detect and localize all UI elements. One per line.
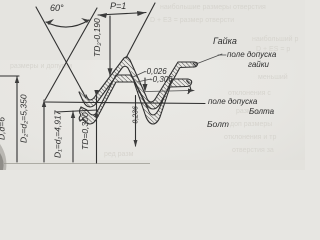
pitch line D2 xyxy=(45,102,205,104)
svg-text:Болта: Болта xyxy=(249,107,275,116)
svg-text:-0,236: -0,236 xyxy=(133,106,140,126)
minor line D1 xyxy=(56,110,97,112)
svg-text:наибольший р: наибольший р xyxy=(252,35,299,43)
svg-text:наибольшие размеры отверстия: наибольшие размеры отверстия xyxy=(160,3,266,11)
dimension D,d=6 xyxy=(16,76,18,162)
dimension TD=0,300 xyxy=(96,92,98,163)
label -0,026 with leader xyxy=(133,72,145,78)
svg-text:P=1: P=1 xyxy=(110,1,126,11)
dimension D2=d2=5,350 xyxy=(43,100,45,162)
svg-text:D₁=d₁=4,917: D₁=d₁=4,917 xyxy=(53,110,63,158)
flank line L2 (right flank of basic profile) xyxy=(45,8,97,100)
svg-text:-0,306: -0,306 xyxy=(150,75,173,84)
bolt zone outline D (bottom) xyxy=(80,82,187,124)
bottom-left dark scan corner xyxy=(0,144,6,170)
svg-text:D + ЕЗ = размер отверсти: D + ЕЗ = размер отверсти xyxy=(150,17,234,24)
nut zone outline B (bottom) xyxy=(79,66,193,109)
dimension TD2=0,190 xyxy=(109,16,111,76)
60 deg arc with arrows xyxy=(46,20,89,27)
svg-text:TD=0,300: TD=0,300 xyxy=(80,112,90,150)
svg-text:D,d=6: D,d=6 xyxy=(0,117,7,140)
svg-text:Болт: Болт xyxy=(207,119,229,129)
leader to nut zone label xyxy=(196,54,222,64)
dimension D1=d1=4,917 xyxy=(72,111,74,162)
svg-text:отклонения с: отклонения с xyxy=(228,90,271,97)
svg-text:TD₂-0,190: TD₂-0,190 xyxy=(92,18,102,57)
svg-text:поле допуска: поле допуска xyxy=(208,97,258,106)
baseline xyxy=(4,163,150,165)
svg-text:отверстия за: отверстия за xyxy=(232,147,274,154)
svg-text:ред разм: ред разм xyxy=(104,151,134,158)
svg-text:гайки: гайки xyxy=(248,60,270,69)
svg-text:Гайка: Гайка xyxy=(213,36,237,46)
major line D,d xyxy=(0,75,19,77)
svg-text:D₂=d₂=5,350: D₂=d₂=5,350 xyxy=(19,94,29,143)
nut tolerance zone (hatched band) xyxy=(79,57,198,110)
nut band end curl (right) xyxy=(193,62,198,67)
bolt band end curl (right) xyxy=(187,79,192,87)
bolt zone outline C (top) xyxy=(81,75,188,115)
flank line L1 (left flank of basic profile) xyxy=(36,7,86,98)
svg-text:отклонения и тр: отклонения и тр xyxy=(224,134,276,141)
dimension -0,236 (bolt root) xyxy=(144,78,146,90)
leader arrow to bolt zone label xyxy=(146,91,193,92)
svg-text:меньший: меньший xyxy=(258,73,288,81)
dimension P=1 xyxy=(98,13,146,16)
bolt band left cut edge xyxy=(79,107,81,121)
svg-text:доп размеры: доп размеры xyxy=(230,121,272,128)
svg-text:поле допуска: поле допуска xyxy=(227,50,277,59)
nut zone outline A (top) xyxy=(86,57,194,103)
label -0,306 with leader xyxy=(137,79,151,82)
flank line L3 (next pitch flank) xyxy=(126,3,155,58)
svg-text:60°: 60° xyxy=(50,3,64,13)
paper background xyxy=(0,0,305,170)
bolt tolerance zone (hatched band) xyxy=(80,75,192,124)
